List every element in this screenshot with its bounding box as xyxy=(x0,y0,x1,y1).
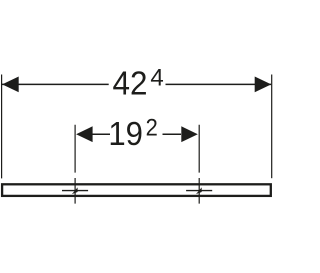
arrowhead 42 right xyxy=(255,77,272,93)
dimension line 19 right segment xyxy=(163,133,182,135)
arrowhead 19 left xyxy=(76,126,93,142)
cross arm left xyxy=(62,190,88,192)
extension line left (42 dim) xyxy=(1,75,3,179)
panel bar (plate) xyxy=(2,184,271,196)
center marker triangle left xyxy=(72,187,78,194)
svg-text:42: 42 xyxy=(113,64,148,101)
extension line right (42 dim) xyxy=(271,75,273,179)
svg-text:2: 2 xyxy=(146,115,158,142)
arrowhead 19 right xyxy=(181,126,198,142)
dimension line 42 right segment xyxy=(166,83,272,85)
dimension line 42 left segment xyxy=(2,83,109,85)
svg-text:19: 19 xyxy=(108,115,143,152)
dimension line 19 left segment xyxy=(92,133,110,135)
center line left (through fixing point) xyxy=(74,125,76,204)
center line right (through fixing point) xyxy=(198,125,200,204)
svg-text:4: 4 xyxy=(150,65,163,92)
cross arm right xyxy=(186,190,212,192)
arrowhead 42 left xyxy=(2,77,19,93)
center marker triangle right xyxy=(196,187,202,194)
